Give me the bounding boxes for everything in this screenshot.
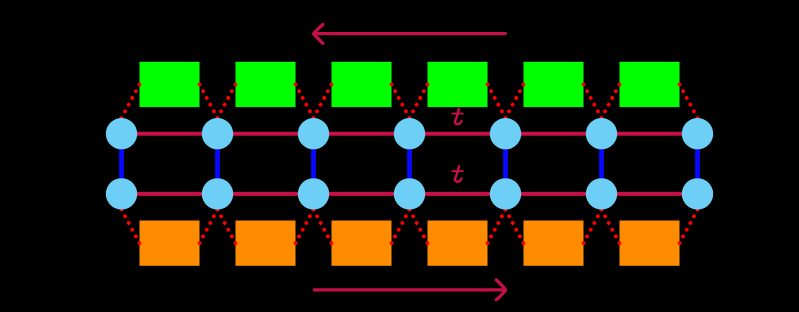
vertical rung bond B2 [215,134,220,194]
dotted coupling D4 (upper circle 3 to left green rect) [296,84,314,118]
bottom arrow (pointing right) [314,280,505,300]
dotted coupling D23 (lower circle 6 to right orange rect) [601,209,619,243]
dotted coupling D5 (upper circle 3 to right green rect) [313,84,331,118]
dotted coupling D24 (lower circle 7 to left orange rect) [680,209,698,243]
vertical rung bond B5 [503,134,508,194]
site circle C2 (lower row) [202,178,233,209]
green bath rect G2 [236,62,296,107]
vertical rung bond B6 [599,134,604,194]
green bath rect G5 [524,62,584,107]
orange bath rect O1 [140,221,200,266]
dotted coupling D15 (lower circle 2 to right orange rect) [217,209,235,243]
orange bath rect O6 [620,221,680,266]
dotted coupling D20 (lower circle 5 to left orange rect) [488,209,506,243]
site circle C1 (lower row) [106,178,137,209]
green bath rect G3 [332,62,392,107]
hopping chain line t (upper row) [122,132,698,136]
dotted coupling D6 (upper circle 4 to left green rect) [392,84,410,118]
hopping chain line t (lower row) [122,192,698,196]
green bath rect G6 [620,62,680,107]
site circle A6 (upper row) [586,118,617,149]
dotted coupling D18 (lower circle 4 to left orange rect) [392,209,410,243]
orange bath rect O4 [428,221,488,266]
site circle A1 (upper row) [106,118,137,149]
vertical rung bond B7 [695,134,700,194]
label t (upper hopping) [452,109,462,125]
dotted coupling D7 (upper circle 4 to right green rect) [409,84,427,118]
dotted coupling D17 (lower circle 3 to right orange rect) [313,209,331,243]
dotted coupling D2 (upper circle 2 to left green rect) [200,84,218,118]
site circle A4 (upper row) [394,118,425,149]
vertical rung bond B1 [119,134,124,194]
vertical rung bond B4 [407,134,412,194]
dotted coupling D21 (lower circle 5 to right orange rect) [505,209,523,243]
dotted coupling D22 (lower circle 6 to left orange rect) [584,209,602,243]
top arrow (pointing left) [314,24,506,43]
green bath rect G4 [428,62,488,107]
dotted coupling D10 (upper circle 6 to left green rect) [584,84,602,118]
site circle C5 (lower row) [490,178,521,209]
site circle A7 (upper row) [682,118,713,149]
label t (lower hopping) [452,166,462,182]
orange bath rect O5 [524,221,584,266]
orange bath rect O3 [332,221,392,266]
site circle C4 (lower row) [394,178,425,209]
green bath rect G1 [140,62,200,107]
site circle C7 (lower row) [682,178,713,209]
site circle A5 (upper row) [490,118,521,149]
dotted coupling D8 (upper circle 5 to left green rect) [488,84,506,118]
site circle C3 (lower row) [298,178,329,209]
dotted coupling D12 (upper circle 7 to left green rect) [680,84,698,118]
orange bath rect O2 [236,221,296,266]
dotted coupling D3 (upper circle 2 to right green rect) [217,84,235,118]
site circle A2 (upper row) [202,118,233,149]
dotted coupling D19 (lower circle 4 to right orange rect) [409,209,427,243]
dotted coupling D1 (upper circle 1 to right green rect) [121,84,139,118]
dotted coupling D16 (lower circle 3 to left orange rect) [296,209,314,243]
dotted coupling D11 (upper circle 6 to right green rect) [601,84,619,118]
vertical rung bond B3 [311,134,316,194]
site circle C6 (lower row) [586,178,617,209]
dotted coupling D13 (lower circle 1 to right orange rect) [121,209,139,243]
site circle A3 (upper row) [298,118,329,149]
dotted coupling D14 (lower circle 2 to left orange rect) [200,209,218,243]
dotted coupling D9 (upper circle 5 to right green rect) [505,84,523,118]
